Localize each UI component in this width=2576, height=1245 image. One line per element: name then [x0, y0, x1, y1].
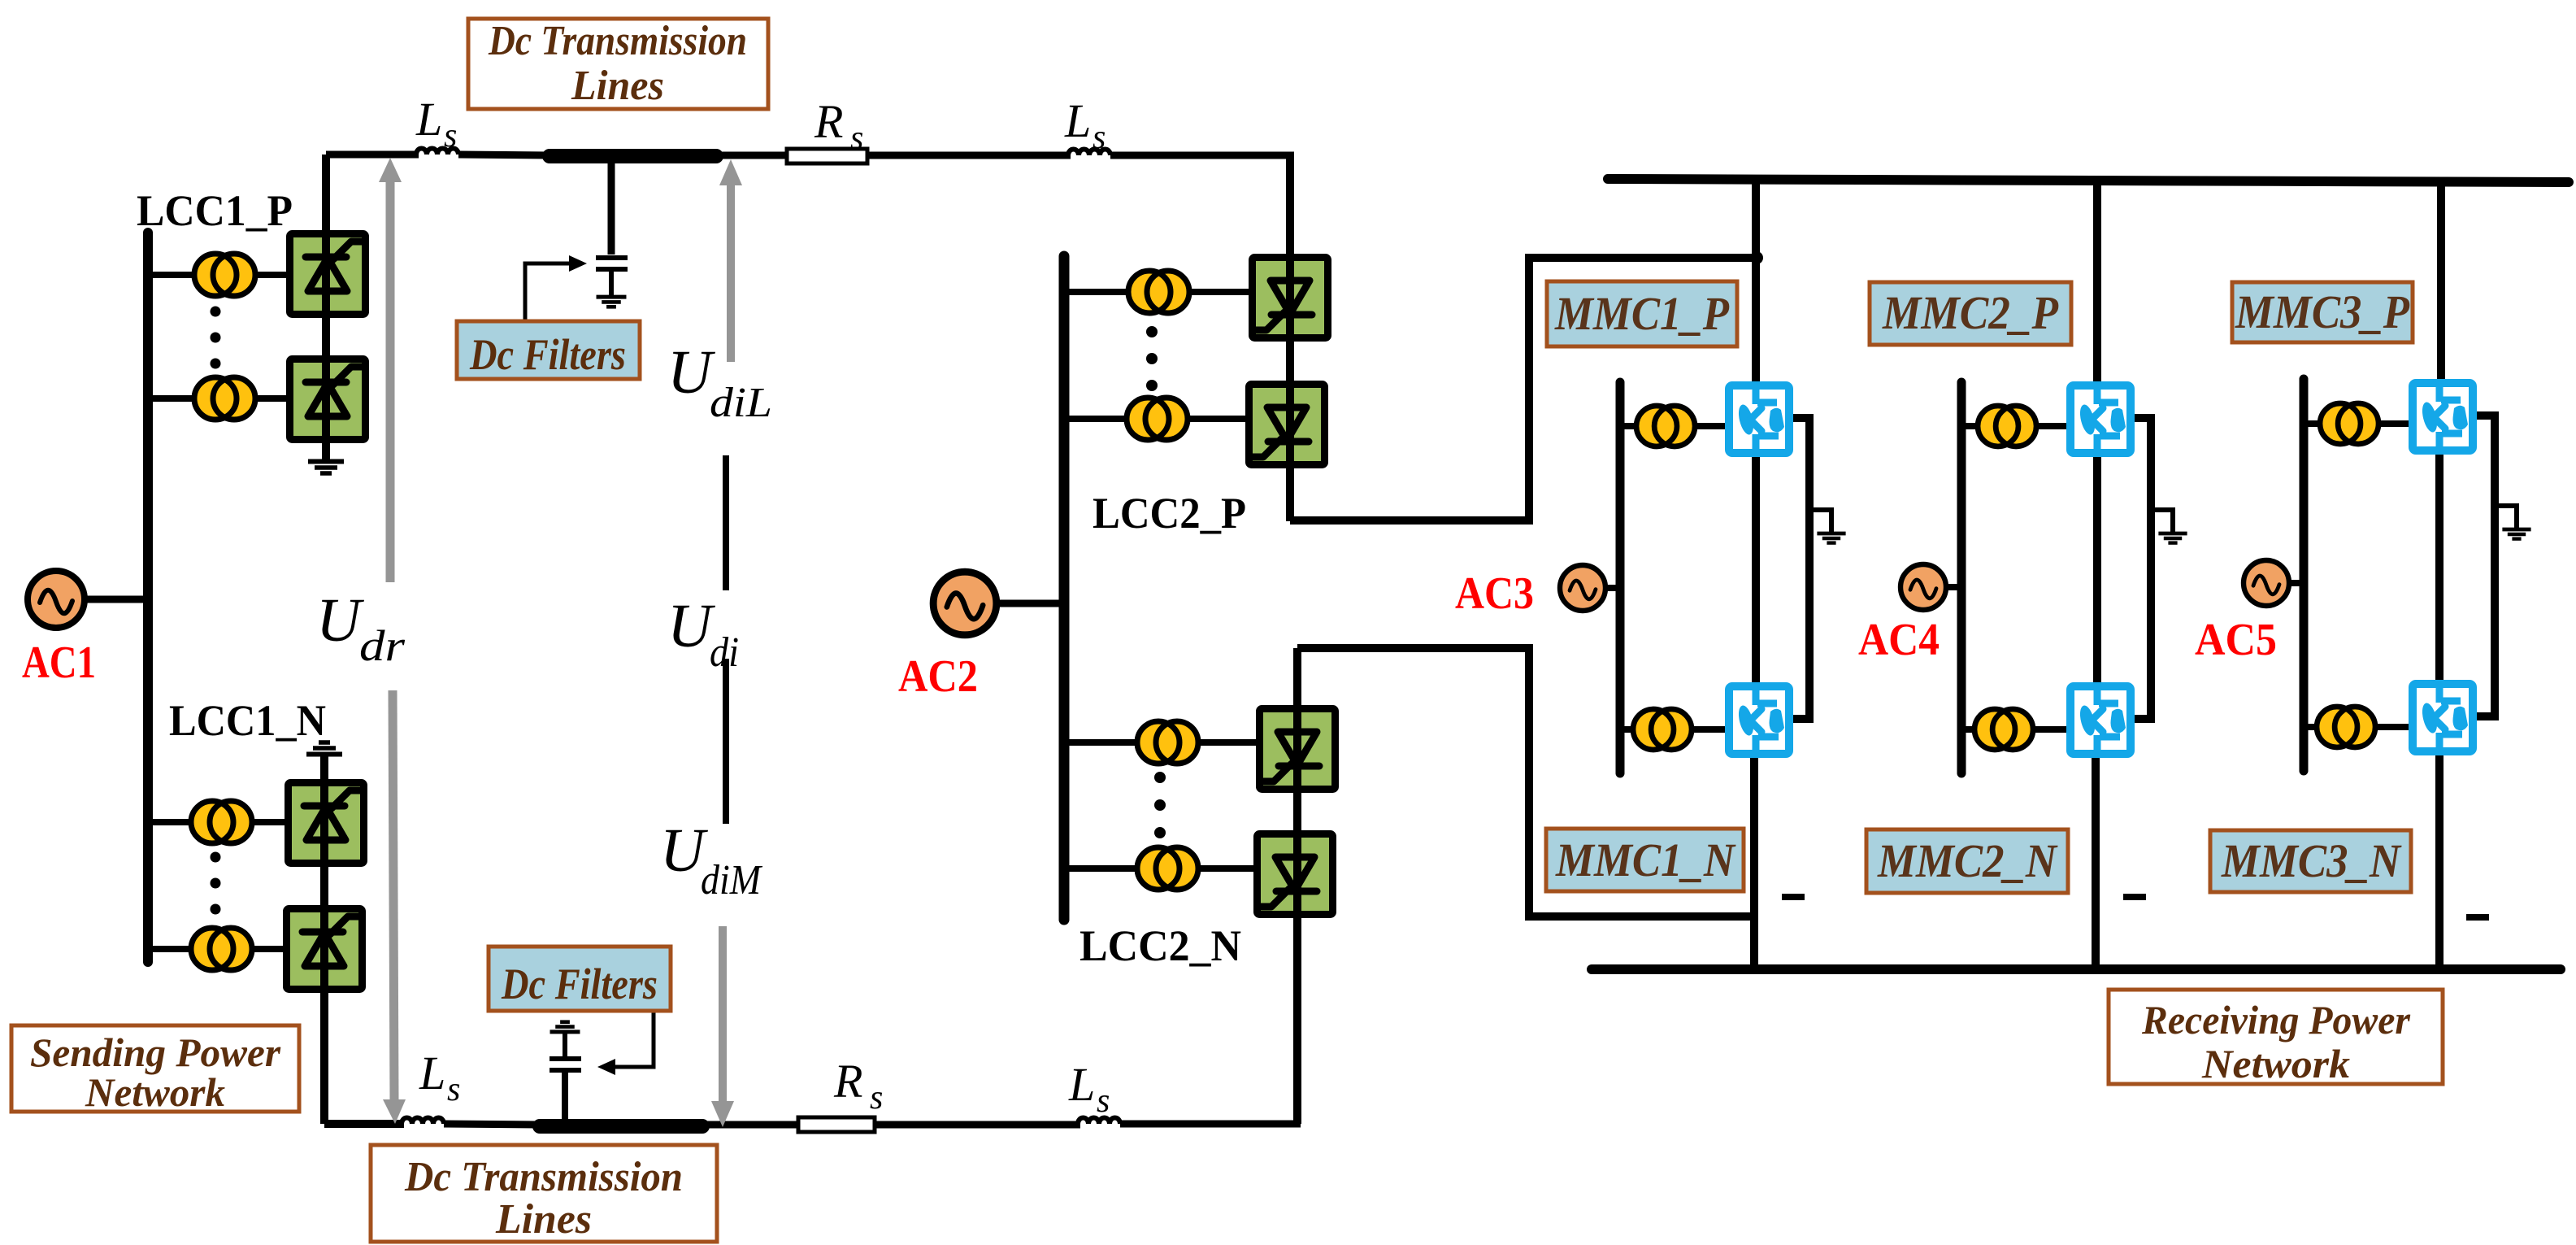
wire: branch to T2 [148, 395, 196, 402]
svg-text:R: R [833, 1055, 862, 1108]
wire: MMC2_N dc lead to negative bus [2092, 748, 2100, 969]
wire: T5 to valve V5 [1188, 289, 1252, 295]
converter MMC1_N [1729, 686, 1789, 754]
capacitor C1 plates [596, 258, 628, 269]
transformer MMC1_N [1633, 709, 1692, 750]
node: dots LCC1_N [211, 852, 221, 915]
svg-text:U: U [667, 592, 715, 660]
svg-text:L: L [415, 93, 442, 146]
transformer T7 [1137, 721, 1198, 764]
converter MMC1_P [1729, 385, 1789, 453]
inductor Ls top-left [416, 149, 458, 155]
wire: LCC1_N dc lead [320, 755, 328, 1124]
transformer T2 [194, 377, 255, 420]
wire: top dc line right [1110, 152, 1294, 159]
transformer MMC3_P [2320, 403, 2378, 444]
svg-text:Lines: Lines [571, 63, 664, 109]
svg-text:LCC1_P: LCC1_P [137, 186, 293, 235]
node: AC2 bus [1059, 256, 1070, 920]
wire: branch to MMC1_P transformer [1620, 423, 1639, 429]
wire: C2 tap to bottom dc line [562, 1070, 568, 1125]
converter MMC2_N [2070, 686, 2131, 754]
svg-text:L: L [1068, 1058, 1095, 1111]
arrow UdiM (gray) [719, 926, 727, 1103]
svg-text:AC5: AC5 [2195, 615, 2277, 665]
svg-text:diM: diM [701, 857, 762, 903]
transformer T4 [191, 928, 252, 970]
wire: branch to T7 [1064, 739, 1139, 746]
wire: MMC1_P dc lead to positive bus [1752, 180, 1760, 389]
arrow Udr top (gray) [386, 181, 395, 582]
wire: branch to T5 [1064, 289, 1130, 295]
label: minus MMC3_N pole [2466, 914, 2489, 921]
svg-text:U: U [667, 338, 715, 407]
dc filter top: tap [608, 156, 615, 255]
wire: branch to T1 [148, 272, 196, 278]
svg-text:MMC2_N: MMC2_N [1877, 834, 2058, 887]
wire: LCC2_N output to MMC negative pole [1297, 648, 1756, 916]
resistor Rs top [787, 149, 867, 163]
wire: branch to T3 [148, 819, 193, 825]
wire: MMC1 midpoint loop [1788, 418, 1809, 719]
wire: T3 to valve V3 [250, 819, 288, 825]
svg-text:L: L [1064, 94, 1091, 147]
wire: LCC2_P output to MMC dc pole [1290, 258, 1756, 520]
transformer MMC3_N [2317, 707, 2375, 747]
svg-text:s: s [444, 117, 457, 155]
svg-text:AC4: AC4 [1858, 615, 1940, 665]
svg-text:s: s [870, 1079, 883, 1117]
wire: branch to T4 [148, 946, 193, 952]
ground below C1 [597, 297, 627, 307]
svg-text:AC2: AC2 [898, 651, 978, 702]
wire: MMC1_N dc lead to negative bus [1750, 748, 1758, 969]
wire: MMC2_P dc lead to positive bus [2093, 180, 2101, 389]
wire: bottom dc line mid2 [702, 1121, 801, 1129]
wire: MMC2 midpoint loop [2130, 418, 2151, 719]
wire: bottom dc line mid1 [444, 1124, 540, 1125]
svg-text:Network: Network [2201, 1041, 2350, 1086]
node: AC3 bus [1616, 382, 1625, 773]
node: dots LCC2_N [1154, 772, 1166, 838]
wire: top dc line left [326, 151, 419, 159]
wire: MMC2 series link [2093, 451, 2101, 690]
wire: T8 to valve V8 [1197, 865, 1257, 872]
label box: MMC2_N [1866, 829, 2068, 893]
resistor Rs bottom [798, 1117, 875, 1132]
svg-text:R: R [814, 95, 843, 148]
valve block V7 (LCC2_N upper) [1260, 709, 1336, 790]
wire: branch to MMC3_P transformer [2304, 420, 2322, 427]
svg-text:LCC1_N: LCC1_N [169, 696, 326, 745]
wire: branch to MMC2_P transformer [1961, 423, 1980, 429]
wire: branch to MMC1_N transformer [1620, 726, 1635, 733]
transformer MMC2_P [1978, 406, 2036, 446]
svg-text:s: s [850, 120, 863, 157]
label box: MMC1_N [1546, 829, 1744, 891]
label box: MMC3_P [2232, 282, 2413, 342]
wire: branch to T8 [1064, 865, 1139, 872]
svg-text:L: L [419, 1047, 445, 1099]
node: AC4 bus [1957, 382, 1966, 773]
wire: LCC2_P dc lead [1286, 155, 1294, 521]
wire: LCC2_N dc lead [1293, 648, 1301, 1124]
ground above LCC1_N [306, 742, 342, 755]
wire: AC2 lead [993, 600, 1064, 607]
node: Udi measuring line upper segment [723, 455, 729, 590]
node: dots LCC1_P [211, 307, 221, 369]
transformer T6 [1127, 398, 1188, 440]
wire: AC4 lead [1945, 584, 1961, 590]
wire: dc transmission line thick bar bottom [540, 1119, 702, 1134]
svg-text:Dc Filters: Dc Filters [501, 960, 658, 1008]
valve block V4 (LCC1_N lower) [287, 909, 363, 990]
ac source AC2 [933, 572, 997, 635]
wire: MMC2_N transformer to converter [2032, 726, 2070, 733]
wire: bottom dc line mid3 [875, 1121, 1080, 1129]
wire: receiving network positive bus [1608, 179, 2569, 182]
wire: MMC3_P transformer to converter [2378, 420, 2413, 427]
label: minus MMC2_N pole [2123, 894, 2146, 900]
inductor Ls top-right [1068, 150, 1110, 156]
valve block V1 (LCC1_P upper) [290, 234, 366, 315]
wire: MMC3_N dc lead to negative bus [2435, 746, 2444, 969]
wire: branch to T6 [1064, 416, 1128, 422]
wire: branch to MMC3_N transformer [2304, 724, 2318, 730]
transformer T8 [1137, 847, 1198, 890]
converter MMC3_N [2413, 684, 2473, 751]
svg-text:Lines: Lines [495, 1196, 592, 1243]
transformer T1 [194, 254, 255, 296]
node: Udi measuring line lower segment [723, 659, 729, 824]
svg-text:U: U [316, 586, 364, 655]
svg-text:Dc Transmission: Dc Transmission [488, 18, 747, 64]
wire: AC5 lead [2287, 580, 2304, 586]
dc filter bottom: inverted ground [550, 1022, 580, 1032]
label: minus MMC1_N pole [1782, 894, 1805, 900]
svg-text:MMC1_N: MMC1_N [1555, 834, 1736, 886]
svg-text:s: s [1093, 119, 1106, 156]
label box: Dc Transmission Lines (top) [468, 19, 768, 109]
svg-text:MMC1_P: MMC1_P [1554, 287, 1729, 340]
valve block V2 (LCC1_P lower) [290, 359, 366, 440]
ac source AC1 [28, 571, 85, 628]
svg-text:MMC2_P: MMC2_P [1882, 286, 2058, 339]
arrow from Dc Filters label to C1 [525, 263, 569, 320]
svg-text:MMC3_P: MMC3_P [2235, 285, 2409, 338]
node: AC1 bus [143, 233, 153, 962]
label box: MMC2_P [1870, 282, 2071, 345]
wire: C1 to ground [609, 269, 614, 296]
label box: MMC3_N [2210, 830, 2411, 892]
capacitor C2 plates [550, 1059, 581, 1070]
transformer T3 [191, 801, 252, 843]
wire: T1 to valve V1 [254, 272, 289, 278]
svg-text:Dc Transmission: Dc Transmission [404, 1154, 683, 1200]
inductor Ls bottom-left [402, 1118, 444, 1125]
wire: T6 to valve V6 [1187, 416, 1249, 422]
wire: branch to MMC2_N transformer [1961, 726, 1976, 733]
label box: Receiving Power Network [2109, 990, 2443, 1084]
label box: Dc Filters (bottom) [489, 947, 671, 1011]
wire: MMC2_P transformer to converter [2036, 423, 2071, 429]
valve block V3 (LCC1_N upper) [289, 783, 364, 864]
node: AC5 bus [2300, 379, 2309, 771]
wire: AC1 lead [85, 596, 150, 603]
converter MMC3_P [2413, 383, 2473, 451]
wire: T7 to valve V7 [1197, 739, 1259, 746]
arrow from bottom Dc Filters label to C2 [615, 1012, 654, 1067]
svg-text:s: s [1097, 1082, 1110, 1120]
transformer MMC2_N [1974, 709, 2033, 750]
wire: top dc line mid3 [867, 152, 1071, 159]
arrow UdiL (gray) [727, 184, 735, 362]
label box: MMC1_P [1547, 281, 1737, 346]
transformer MMC1_P [1636, 406, 1695, 446]
label box: Sending Power Network [11, 1025, 299, 1112]
wire: dc transmission line thick bar top [550, 149, 716, 163]
svg-text:AC1: AC1 [22, 638, 96, 688]
node: junction LCC2_P / MMC positive pole [1750, 251, 1763, 264]
wire: LCC1_P dc lead [322, 155, 330, 460]
transformer T5 [1128, 271, 1189, 313]
svg-text:di: di [710, 629, 739, 676]
label box: Dc Filters (top) [457, 321, 640, 379]
svg-text:diL: diL [710, 380, 772, 426]
ac source AC5 [2244, 560, 2289, 606]
svg-text:Network: Network [85, 1069, 225, 1115]
svg-text:dr: dr [359, 621, 406, 670]
wire: MMC3_N transformer to converter [2374, 724, 2413, 730]
valve block V5 (LCC2_P upper) [1253, 258, 1328, 338]
wire: top dc line mid2 [716, 152, 790, 159]
converter MMC2_P [2070, 385, 2131, 453]
wire: MMC3_P dc lead to positive bus [2437, 181, 2445, 387]
wire: MMC3 midpoint loop [2474, 416, 2495, 716]
ground MMC2 midpoint [2151, 510, 2173, 533]
wire: T2 to valve V2 [254, 395, 289, 402]
wire: MMC1 series link [1752, 451, 1760, 690]
arrow Udr bottom (gray) [393, 690, 394, 1101]
svg-text:LCC2_P: LCC2_P [1093, 489, 1246, 538]
svg-text:MMC3_N: MMC3_N [2221, 834, 2402, 887]
svg-text:Receiving Power: Receiving Power [2141, 997, 2410, 1043]
svg-text:LCC2_N: LCC2_N [1079, 921, 1241, 970]
svg-text:s: s [447, 1071, 460, 1108]
label box: Dc Transmission Lines (bottom) [371, 1145, 717, 1242]
ac source AC4 [1901, 564, 1946, 610]
valve block V6 (LCC2_P lower) [1249, 385, 1325, 465]
wire: AC3 lead [1604, 585, 1620, 591]
wire: T4 to valve V4 [250, 946, 286, 952]
svg-text:AC3: AC3 [1455, 568, 1534, 619]
wire: MMC3 series link [2435, 449, 2444, 687]
ground MMC3 midpoint [2495, 506, 2517, 529]
ground MMC1 midpoint [1809, 510, 1831, 533]
wire: bottom dc line right [1120, 1121, 1301, 1128]
wire: MMC1_P transformer to converter [1695, 423, 1730, 429]
svg-text:Dc Filters: Dc Filters [469, 330, 626, 379]
wire: MMC1_N transformer to converter [1691, 726, 1729, 733]
wire: ground to C2 [563, 1033, 567, 1058]
wire: bottom dc line left [324, 1120, 404, 1128]
wire: receiving network negative bus [1592, 964, 2561, 974]
valve block V8 (LCC2_N lower) [1258, 834, 1333, 915]
inductor Ls bottom-right [1078, 1118, 1120, 1125]
node: dots LCC2_P [1146, 326, 1158, 391]
svg-text:Sending Power: Sending Power [30, 1030, 281, 1075]
ac source AC3 [1560, 565, 1605, 611]
wire: top dc line mid1 [458, 155, 550, 155]
ground below LCC1_P [308, 462, 344, 474]
